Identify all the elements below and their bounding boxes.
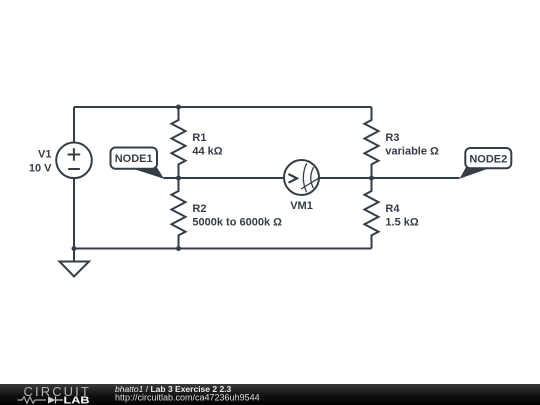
footer bar [0, 384, 540, 405]
wire left rail lower [73, 178, 75, 249]
label R3 variable Ohm [385, 132, 439, 158]
voltage source V1 [56, 107, 92, 249]
label R2 5000k to 6000k Ohm [192, 203, 282, 229]
resistor R3 [365, 107, 379, 178]
svg-text:V1: V1 [38, 149, 51, 161]
resistor R1 [172, 107, 186, 178]
svg-text:R1: R1 [192, 132, 206, 144]
junction dot ground [72, 246, 77, 251]
junction dot top of R1 [176, 105, 181, 110]
svg-text:R3: R3 [385, 132, 399, 144]
svg-text:44 kΩ: 44 kΩ [192, 146, 222, 158]
resistor R2 [172, 178, 186, 249]
svg-text:10 V: 10 V [29, 163, 52, 175]
CircuitLab logo [18, 384, 91, 405]
node NODE2 flag [460, 148, 512, 179]
svg-text:1.5 kΩ: 1.5 kΩ [385, 217, 418, 229]
label VM1 [290, 200, 313, 212]
wire bottom rail [74, 248, 372, 250]
svg-text:R2: R2 [192, 203, 206, 215]
wire left rail upper [73, 107, 75, 143]
svg-text:http://circuitlab.com/ca47236u: http://circuitlab.com/ca47236uh9544 [115, 393, 260, 403]
svg-text:variable Ω: variable Ω [385, 146, 439, 158]
svg-text:NODE1: NODE1 [115, 153, 153, 165]
footer title text [115, 384, 260, 403]
wire top rail [74, 106, 372, 108]
label V1 10 V [29, 149, 52, 175]
svg-text:R4: R4 [385, 203, 400, 215]
svg-text:LAB: LAB [64, 395, 90, 405]
svg-text:VM1: VM1 [290, 200, 313, 212]
junction dot node B (R3/R4/NODE2) [369, 176, 374, 181]
wire middle left (NODE1 to voltmeter) [164, 177, 285, 179]
label R4 1.5 kOhm [385, 203, 418, 229]
wire middle right (voltmeter to NODE2) [319, 177, 460, 179]
ground [60, 249, 90, 277]
label R1 44 kOhm [192, 132, 222, 158]
junction dot bottom of R2 [176, 246, 181, 251]
svg-text:NODE2: NODE2 [469, 153, 507, 165]
node NODE1 flag [111, 148, 165, 179]
resistor R4 [365, 178, 379, 249]
svg-text:5000k to 6000k Ω: 5000k to 6000k Ω [192, 217, 282, 229]
voltmeter VM1 [284, 160, 319, 195]
junction dot node A (R1/R2/NODE1) [176, 176, 181, 181]
